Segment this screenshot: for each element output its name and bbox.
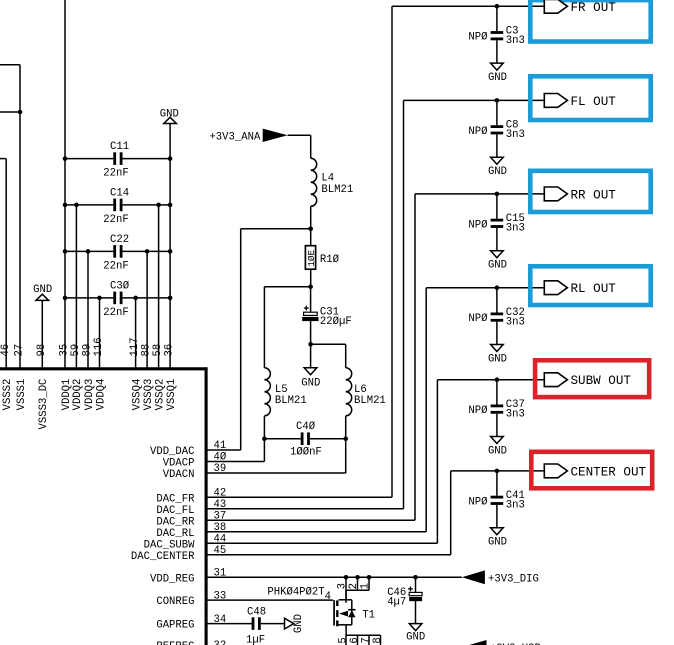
wire node C to L6 top xyxy=(311,344,346,368)
wire node B to C31 xyxy=(310,287,312,312)
T1 pin 1 number xyxy=(360,583,372,589)
hierarchical label RL OUT xyxy=(544,281,616,296)
pin 42 (DAC_FR) label xyxy=(156,488,226,506)
wire DAC_RL run xyxy=(206,288,544,532)
svg-text:VDDQ3: VDDQ3 xyxy=(84,379,96,411)
T1 pin 4 number xyxy=(325,591,331,603)
svg-text:CENTER OUT: CENTER OUT xyxy=(571,465,647,479)
svg-text:BLM21: BLM21 xyxy=(275,395,307,407)
svg-text:SUBW OUT: SUBW OUT xyxy=(571,374,632,388)
hierarchical label FL OUT xyxy=(544,94,616,109)
svg-text:35: 35 xyxy=(59,344,71,357)
hierarchical label FR OUT xyxy=(544,0,616,15)
capacitor C3 3n3 NP0 xyxy=(468,4,524,63)
svg-text:5: 5 xyxy=(337,637,349,643)
T1 pin 3 number xyxy=(337,583,349,589)
svg-text:DAC_RR: DAC_RR xyxy=(156,516,195,528)
T1 pin 5 number xyxy=(337,637,349,643)
svg-text:3n3: 3n3 xyxy=(506,35,525,47)
svg-text:GAPREG: GAPREG xyxy=(156,620,194,632)
wire branch to left edge + junction xyxy=(0,110,22,115)
capacitor C8 3n3 NP0 xyxy=(468,98,524,157)
svg-text:BLM21: BLM21 xyxy=(321,184,353,196)
wire rail to C46 + junction xyxy=(413,575,418,592)
svg-text:RR OUT: RR OUT xyxy=(571,188,617,202)
pin 33 (CONREG) label xyxy=(156,590,226,608)
wire VDD_REG rail xyxy=(206,576,462,578)
svg-text:DAC_RL: DAC_RL xyxy=(156,528,194,540)
pin 37 (DAC_RR) label xyxy=(156,511,226,529)
pin 46 (VSSS2) xyxy=(0,159,14,411)
svg-text:VDACP: VDACP xyxy=(163,458,195,470)
wire DAC_RR run xyxy=(206,194,544,520)
svg-text:GND: GND xyxy=(488,537,507,549)
T1 pin 7 number xyxy=(360,637,372,643)
svg-text:8: 8 xyxy=(372,637,384,643)
svg-text:VDD_DAC: VDD_DAC xyxy=(150,446,195,458)
svg-text:+3V3_DIG: +3V3_DIG xyxy=(488,573,539,585)
svg-text:88: 88 xyxy=(141,344,153,357)
capacitor C46 4u7 xyxy=(387,587,422,609)
wire C46 to ground xyxy=(415,601,417,624)
svg-text:GND: GND xyxy=(488,353,507,365)
pin 34 (GAPREG) label xyxy=(156,614,226,632)
svg-text:C11: C11 xyxy=(110,141,129,153)
wire VSSS1 to left edge xyxy=(0,64,20,66)
pin 36 (VSSQ1) xyxy=(164,124,178,411)
svg-text:VSSQ4: VSSQ4 xyxy=(131,379,143,411)
svg-text:L4: L4 xyxy=(321,172,334,184)
svg-text:22nF: 22nF xyxy=(103,168,128,180)
svg-text:VDACN: VDACN xyxy=(163,469,195,481)
svg-text:58: 58 xyxy=(152,344,164,357)
wire node C to ground xyxy=(310,344,312,367)
T1 source stubs + junctions xyxy=(344,575,372,603)
pin 40 (VDACP) label xyxy=(163,452,227,470)
pin 41 (VDD_DAC) label xyxy=(150,440,226,458)
inductor L5 BLM21 xyxy=(264,368,306,416)
svg-text:VSSS2: VSSS2 xyxy=(2,379,14,411)
svg-text:7: 7 xyxy=(360,637,372,643)
node A junction xyxy=(308,227,313,232)
pin 38 (DAC_RL) label xyxy=(156,522,226,540)
svg-text:4µ7: 4µ7 xyxy=(387,597,406,609)
ground (C32) xyxy=(488,345,507,366)
svg-text:GND: GND xyxy=(488,72,507,84)
ground (top rail) xyxy=(160,109,179,124)
svg-text:GND: GND xyxy=(160,109,179,121)
T1 pin 2 number xyxy=(348,583,360,589)
svg-text:VSSQ3: VSSQ3 xyxy=(143,379,155,411)
ground (pin 98) xyxy=(33,284,52,300)
svg-text:DAC_SUBW: DAC_SUBW xyxy=(144,539,196,551)
capacitor C30 22nF xyxy=(63,281,173,319)
hierarchical label box FL OUT xyxy=(530,76,650,120)
transistor T1 PHK04P02T xyxy=(334,590,375,635)
svg-text:3n3: 3n3 xyxy=(506,223,525,235)
svg-text:NPØ: NPØ xyxy=(468,313,488,325)
svg-text:1ØE: 1ØE xyxy=(306,249,317,266)
svg-text:3n3: 3n3 xyxy=(506,129,525,141)
svg-text:22nF: 22nF xyxy=(103,214,128,226)
svg-text:C4Ø: C4Ø xyxy=(296,421,316,433)
svg-text:GND: GND xyxy=(488,260,507,272)
wire node A to VDD_DAC riser xyxy=(206,229,311,450)
ground (C48, right-facing) xyxy=(285,614,306,633)
wire C31 to node C xyxy=(310,321,312,344)
svg-text:VSSQ2: VSSQ2 xyxy=(154,379,166,411)
svg-text:PHKØ4PØ2T: PHKØ4PØ2T xyxy=(267,587,324,599)
power +3V3_DIG xyxy=(462,570,539,585)
ground (C37) xyxy=(488,437,507,458)
pin 59 (VDDQ2) xyxy=(70,205,84,410)
pin 32 label (clipped) xyxy=(156,640,226,645)
svg-text:+3V3_ANA: +3V3_ANA xyxy=(209,132,261,144)
svg-text:32: 32 xyxy=(214,640,227,645)
wire node A to R10 xyxy=(310,229,312,246)
svg-text:T1: T1 xyxy=(362,609,375,621)
svg-text:3n3: 3n3 xyxy=(506,500,525,512)
hierarchical label box RR OUT xyxy=(530,171,650,212)
svg-text:6: 6 xyxy=(349,637,361,643)
wire DAC_CENTER run xyxy=(206,471,544,555)
svg-text:1ØØnF: 1ØØnF xyxy=(290,446,322,458)
pin 98 (VSSS3_DC) xyxy=(36,300,50,429)
svg-text:VSSS3_DC: VSSS3_DC xyxy=(38,379,50,430)
capacitor C14 22nF xyxy=(63,188,173,226)
svg-text:DAC_CENTER: DAC_CENTER xyxy=(131,551,195,563)
svg-text:98: 98 xyxy=(36,344,48,357)
capacitor C40 100nF xyxy=(262,421,348,458)
power +3V3_ANA xyxy=(209,129,287,144)
svg-text:22ØµF: 22ØµF xyxy=(320,316,352,328)
T1 pin 6 number xyxy=(349,637,361,643)
svg-text:DAC_FR: DAC_FR xyxy=(156,493,195,505)
capacitor C31 220uF xyxy=(302,306,351,328)
svg-text:22nF: 22nF xyxy=(103,307,128,319)
svg-text:116: 116 xyxy=(93,337,105,356)
pin 27 (VSSS1) xyxy=(14,65,28,411)
capacitor C22 22nF xyxy=(63,234,173,272)
svg-text:BLM21: BLM21 xyxy=(354,395,386,407)
node C junction xyxy=(308,342,313,347)
svg-text:36: 36 xyxy=(164,344,176,357)
resistor R10 10E xyxy=(305,246,339,270)
svg-text:3: 3 xyxy=(337,583,349,589)
pin 35 (VDDQ1) xyxy=(59,0,73,410)
ground (C3) xyxy=(488,63,507,84)
wire CONREG to T1 gate xyxy=(206,599,333,601)
pin 44 (DAC_SUBW) label xyxy=(144,534,227,552)
svg-text:46: 46 xyxy=(0,344,12,357)
hierarchical label box RL OUT xyxy=(530,266,650,305)
svg-text:GND: GND xyxy=(488,445,507,457)
ground (C46) xyxy=(406,624,425,644)
svg-text:41: 41 xyxy=(214,440,227,452)
svg-text:2: 2 xyxy=(348,583,360,589)
svg-text:DAC_FL: DAC_FL xyxy=(156,505,194,517)
svg-text:CONREG: CONREG xyxy=(156,596,194,608)
svg-text:REFREG: REFREG xyxy=(156,641,194,645)
pin 39 (VDACN) label xyxy=(163,463,227,481)
svg-text:4: 4 xyxy=(325,591,331,603)
pin 31 (VDD_REG) label xyxy=(150,568,226,586)
svg-text:GND: GND xyxy=(488,166,507,178)
svg-text:VDDQ1: VDDQ1 xyxy=(61,379,73,411)
wire L6 to VDACN xyxy=(206,416,346,473)
pin 45 (DAC_CENTER) label xyxy=(131,545,226,563)
svg-text:C48: C48 xyxy=(247,607,266,619)
svg-text:VDDQ4: VDDQ4 xyxy=(95,379,107,411)
capacitor C48 1uF xyxy=(206,607,284,645)
inductor L4 BLM21 xyxy=(311,158,353,206)
pin 89 (VDDQ3) xyxy=(82,251,96,410)
wire R10 to node B xyxy=(310,269,312,287)
svg-text:NPØ: NPØ xyxy=(468,32,488,44)
svg-text:27: 27 xyxy=(14,344,26,357)
wire VSSS2 to left edge xyxy=(0,158,6,160)
ground (C8) xyxy=(488,157,507,178)
pin 43 (DAC_FL) label xyxy=(156,499,226,517)
pin 117 (VSSQ4) xyxy=(129,298,143,410)
svg-text:C22: C22 xyxy=(110,234,129,246)
ground (node C) xyxy=(301,368,320,390)
wire DAC_FL run xyxy=(206,100,544,508)
svg-text:VSSQ1: VSSQ1 xyxy=(166,379,178,411)
svg-text:22nF: 22nF xyxy=(103,260,128,272)
svg-text:NPØ: NPØ xyxy=(468,219,488,231)
svg-text:GND: GND xyxy=(301,377,320,389)
svg-text:NPØ: NPØ xyxy=(468,405,488,417)
pin 58 (VSSQ2) xyxy=(152,205,166,410)
capacitor C41 3n3 NP0 xyxy=(468,469,524,528)
svg-text:R1Ø: R1Ø xyxy=(320,254,340,266)
hierarchical label SUBW OUT xyxy=(544,373,631,388)
inductor L6 BLM21 xyxy=(346,368,386,416)
IC power/DAC section outline xyxy=(0,367,206,645)
power symbol (clipped, bottom) xyxy=(463,640,541,645)
svg-text:59: 59 xyxy=(70,344,82,357)
capacitor C37 3n3 NP0 xyxy=(468,377,524,436)
svg-text:117: 117 xyxy=(129,337,141,356)
T1 part number xyxy=(267,587,324,599)
svg-text:4Ø: 4Ø xyxy=(214,452,227,464)
svg-text:VSSS1: VSSS1 xyxy=(16,379,28,411)
svg-text:RL OUT: RL OUT xyxy=(571,282,617,296)
svg-text:VDD_REG: VDD_REG xyxy=(150,573,195,585)
wire DAC_FR run xyxy=(206,6,544,497)
capacitor C15 3n3 NP0 xyxy=(468,192,524,251)
capacitor C11 22nF xyxy=(63,141,173,179)
pin 116 (VDDQ4) xyxy=(93,298,107,410)
capacitor C32 3n3 NP0 xyxy=(468,285,524,344)
ground (C15) xyxy=(488,251,507,272)
svg-text:NPØ: NPØ xyxy=(468,496,488,508)
svg-text:C3Ø: C3Ø xyxy=(110,281,130,293)
svg-text:89: 89 xyxy=(82,344,94,357)
pin 88 (VSSQ3) xyxy=(141,251,155,410)
wire L4 to node xyxy=(310,206,312,229)
wire L5 to VDACP xyxy=(206,416,264,462)
svg-text:3n3: 3n3 xyxy=(506,409,525,421)
svg-text:3n3: 3n3 xyxy=(506,317,525,329)
T1 pin 8 number xyxy=(372,637,384,643)
hierarchical label box FR OUT xyxy=(530,0,650,41)
svg-text:NPØ: NPØ xyxy=(468,126,488,138)
ground (C41) xyxy=(488,528,507,549)
svg-text:FR OUT: FR OUT xyxy=(571,1,617,15)
T1 drain bracket xyxy=(346,635,381,645)
hierarchical label box CENTER OUT xyxy=(531,452,652,489)
hierarchical label CENTER OUT xyxy=(544,464,646,479)
hierarchical label RR OUT xyxy=(544,187,616,202)
svg-text:GND: GND xyxy=(293,614,305,633)
svg-text:1µF: 1µF xyxy=(246,634,265,645)
svg-text:FL OUT: FL OUT xyxy=(571,95,617,109)
svg-text:39: 39 xyxy=(214,463,227,475)
hierarchical label box SUBW OUT xyxy=(535,360,649,397)
svg-text:1: 1 xyxy=(360,583,372,589)
wire DAC_SUBW run xyxy=(206,380,544,544)
svg-text:GND: GND xyxy=(33,284,52,296)
svg-text:GND: GND xyxy=(406,631,425,643)
node B junction xyxy=(308,285,313,290)
svg-text:VDDQ2: VDDQ2 xyxy=(72,379,84,411)
svg-text:C14: C14 xyxy=(110,188,129,200)
wire +3V3_ANA to L4 xyxy=(288,135,311,158)
wire node B to L5 top xyxy=(264,287,310,368)
